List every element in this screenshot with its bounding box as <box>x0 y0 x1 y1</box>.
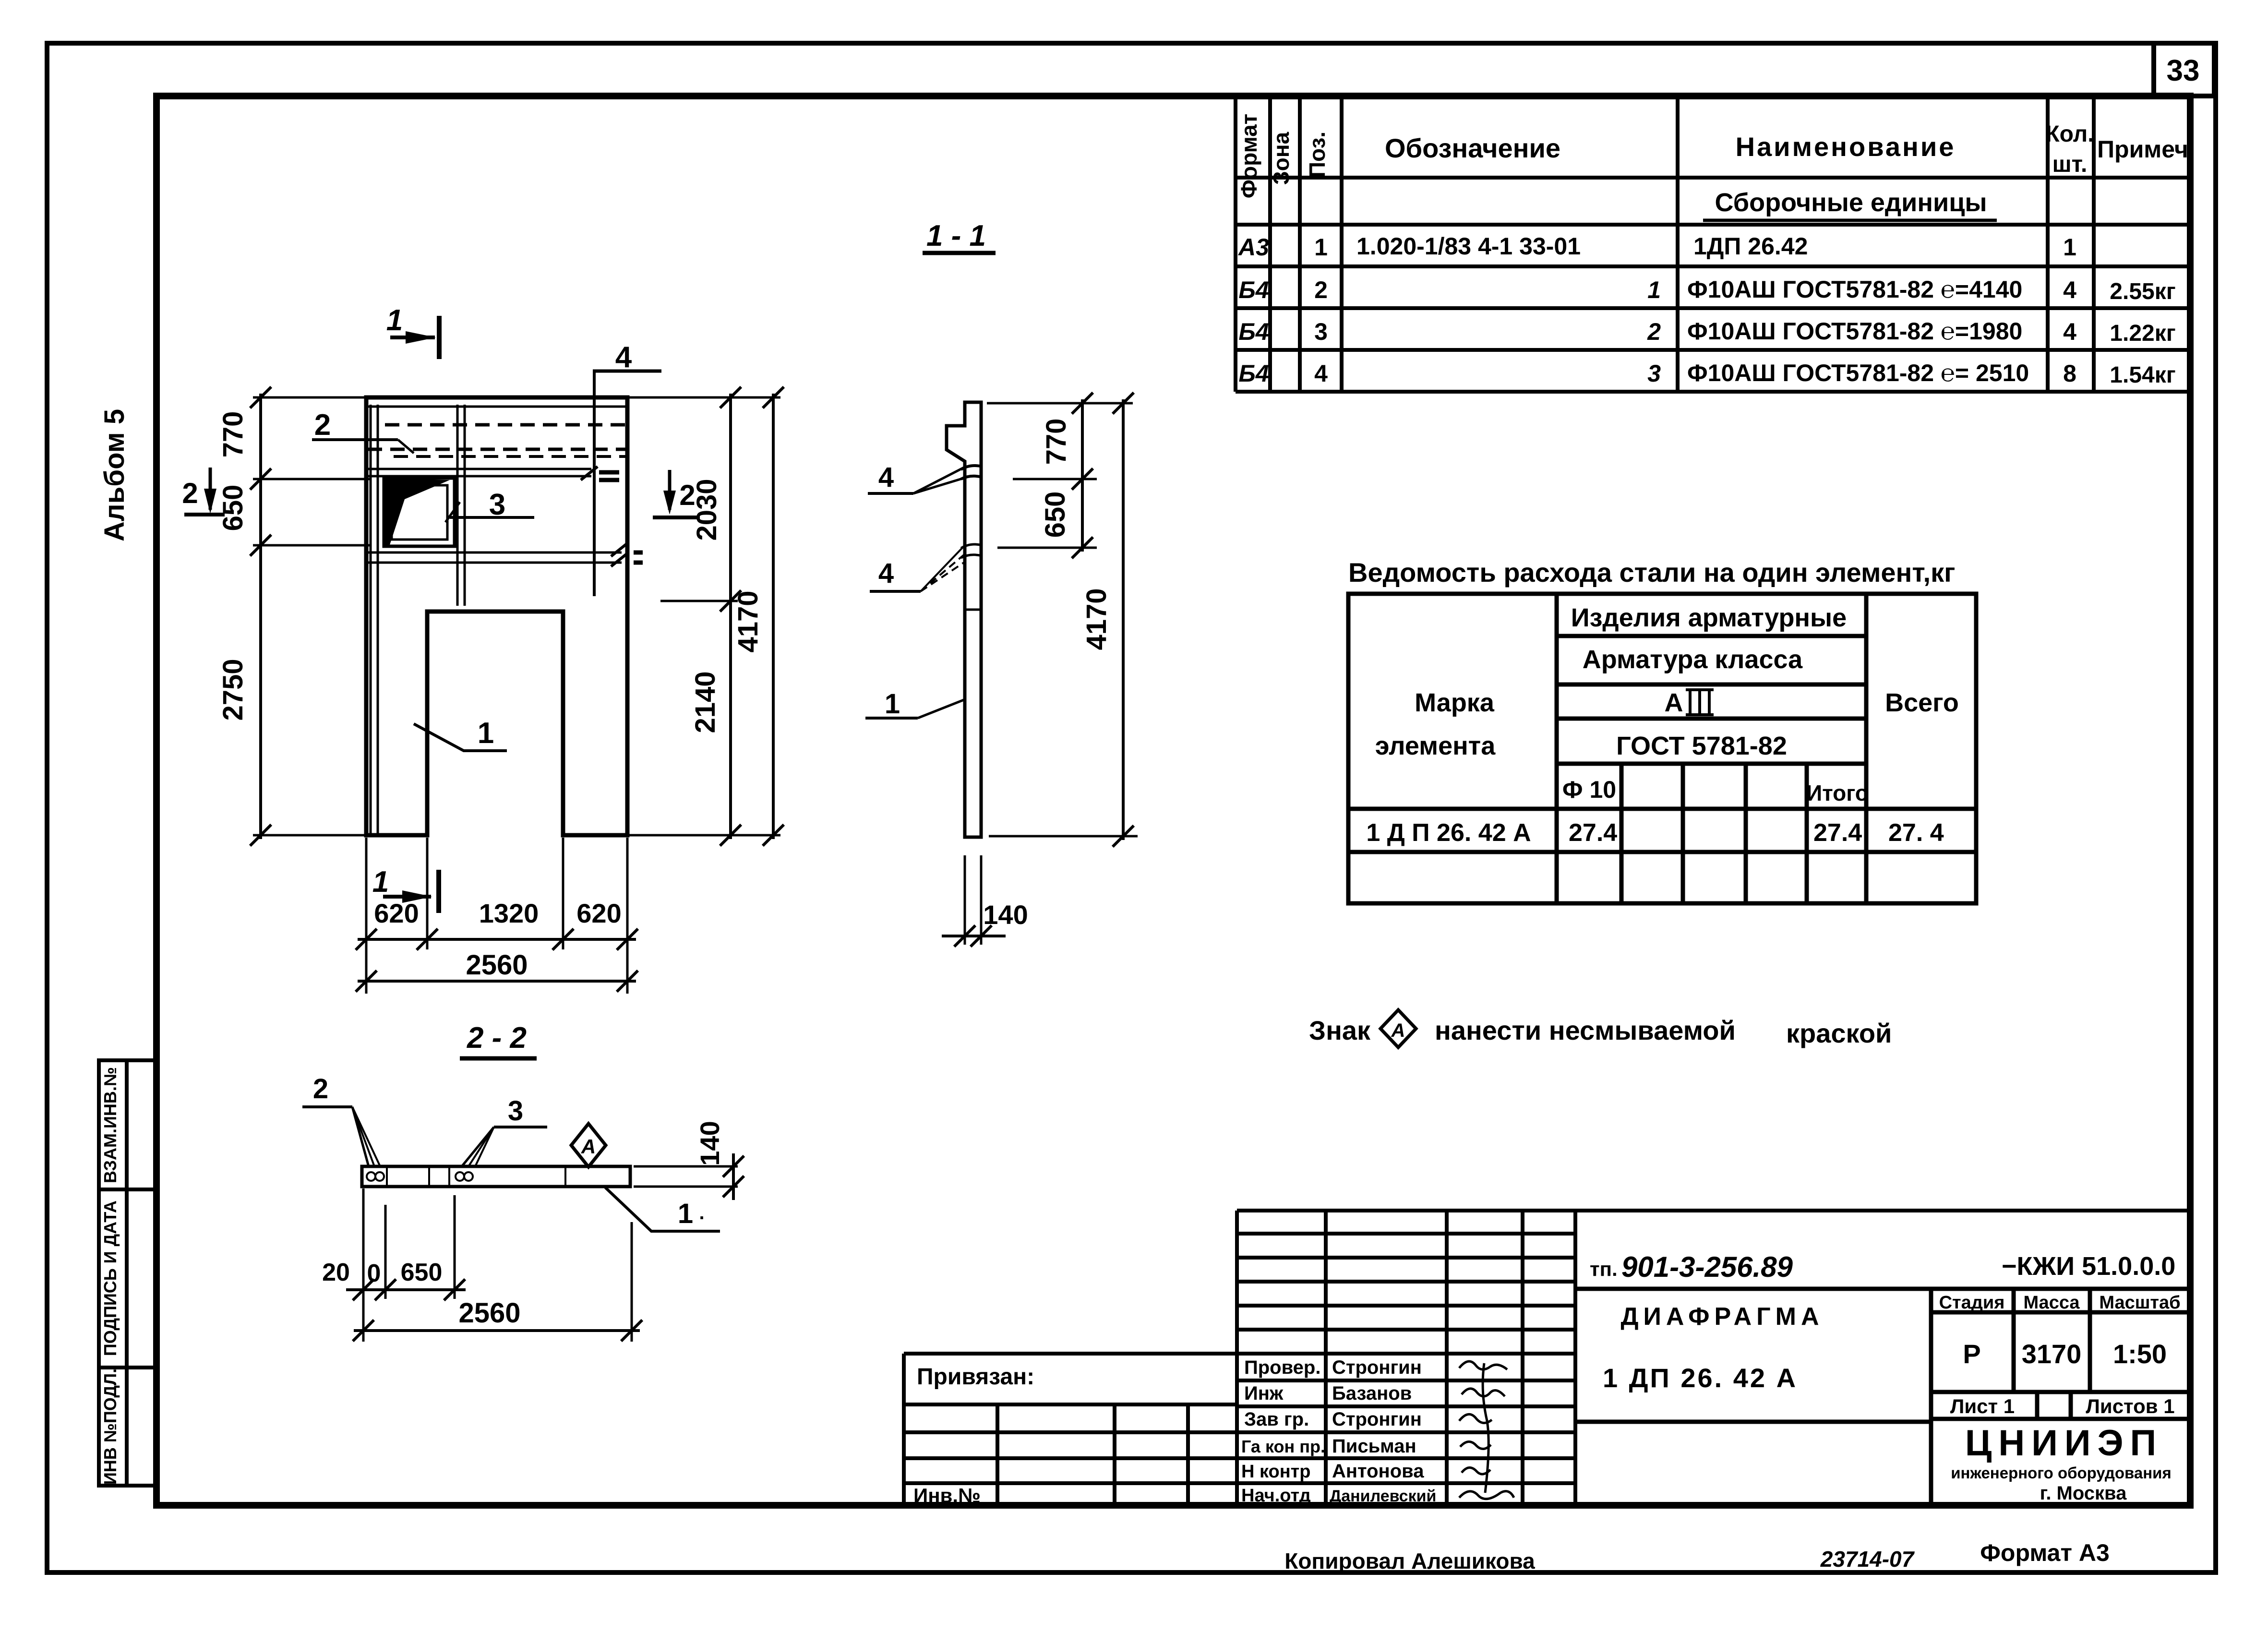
svg-text:20: 20 <box>322 1259 350 1286</box>
svg-text:8: 8 <box>2063 360 2076 387</box>
svg-text:Поз.: Поз. <box>1305 132 1330 178</box>
svg-text:А: А <box>581 1135 596 1158</box>
svg-text:27.4: 27.4 <box>1813 819 1862 847</box>
svg-text:650: 650 <box>217 485 249 531</box>
svg-text:1.020-1/83 4-1 33-01: 1.020-1/83 4-1 33-01 <box>1356 233 1581 260</box>
label 4 upper <box>868 462 964 493</box>
signature rows texts <box>1241 1357 1436 1506</box>
black corner flag <box>385 479 450 545</box>
svg-text:4: 4 <box>878 462 894 493</box>
svg-text:1 - 1: 1 - 1 <box>926 219 986 252</box>
svg-text:Копировал Алешикова: Копировал Алешикова <box>1284 1548 1535 1573</box>
SIDE VIEW section 1-1 title <box>923 219 996 253</box>
svg-text:1.54кг: 1.54кг <box>2110 362 2175 388</box>
bottom dimension line 2 <box>358 980 636 983</box>
svg-text:4170: 4170 <box>732 590 764 652</box>
label 3 with anchor fan (2-2) <box>456 1095 547 1181</box>
svg-text:Письман: Письман <box>1332 1436 1416 1457</box>
note: Знак А нанести несмываемой краской <box>1309 1010 1892 1048</box>
svg-text:Формат А3: Формат А3 <box>1980 1539 2110 1566</box>
dim 140 (2-2) <box>634 1166 738 1187</box>
panel inner top edge line <box>366 406 627 408</box>
svg-text:краской: краской <box>1786 1018 1892 1048</box>
section 2-2 slab bar <box>362 1166 630 1187</box>
label 1 side view <box>865 688 964 720</box>
SECTION 2-2 title <box>460 1021 537 1058</box>
svg-text:650: 650 <box>1040 492 1071 538</box>
svg-text:3170: 3170 <box>2022 1339 2082 1369</box>
sidebar stamp boxes <box>99 1060 156 1486</box>
svg-text:ПОДПИСЬ И ДАТА: ПОДПИСЬ И ДАТА <box>100 1200 120 1356</box>
svg-text:А: А <box>1391 1020 1405 1041</box>
svg-text:Инж: Инж <box>1244 1383 1284 1404</box>
svg-text:Б4: Б4 <box>1238 276 1269 303</box>
svg-text:Данилевский: Данилевский <box>1330 1487 1436 1505</box>
svg-text:Формат: Формат <box>1236 114 1261 198</box>
title block left part: Привязан <box>904 1354 1237 1505</box>
svg-text:−КЖИ 51.0.0.0: −КЖИ 51.0.0.0 <box>2002 1252 2175 1281</box>
svg-text:2030: 2030 <box>691 479 722 540</box>
svg-text:Инв.№: Инв.№ <box>913 1484 981 1507</box>
label 1 (2-2) <box>605 1188 720 1231</box>
svg-text:2: 2 <box>1314 276 1328 303</box>
label 4 lower <box>870 546 964 591</box>
svg-text:27.4: 27.4 <box>1569 819 1617 847</box>
svg-text:А3: А3 <box>1237 234 1269 261</box>
svg-text:2: 2 <box>314 408 331 442</box>
svg-text:Привязан:: Привязан: <box>917 1364 1034 1390</box>
svg-text:1: 1 <box>2063 234 2076 261</box>
dashed hidden line 3 <box>394 455 625 458</box>
label 2 with anchor fan (2-2) <box>302 1073 384 1181</box>
specification table grid <box>1236 97 2190 392</box>
svg-text:140: 140 <box>983 900 1028 930</box>
svg-text:620: 620 <box>374 898 419 928</box>
svg-text:1ДП 26.42: 1ДП 26.42 <box>1693 233 1808 260</box>
svg-text:1.22кг: 1.22кг <box>2110 321 2175 346</box>
svg-text:33: 33 <box>2167 54 2200 87</box>
svg-text:650: 650 <box>401 1259 443 1286</box>
svg-text:23714-07: 23714-07 <box>1820 1547 1915 1572</box>
svg-text:1: 1 <box>678 1198 693 1229</box>
svg-text:Ф10АШ ГОСТ5781-82 ℮=4140: Ф10АШ ГОСТ5781-82 ℮=4140 <box>1687 276 2022 303</box>
svg-text:4: 4 <box>615 341 632 374</box>
svg-text:Б4: Б4 <box>1238 318 1269 345</box>
opening corner window: inner rect <box>392 485 447 540</box>
dim line 2560 (2-2) <box>354 1329 640 1332</box>
svg-text:1 ДП 26. 42 А: 1 ДП 26. 42 А <box>1603 1363 1798 1393</box>
svg-text:2560: 2560 <box>458 1297 520 1329</box>
section callout 4 underline and cut line <box>593 370 661 373</box>
svg-text:Ф 10: Ф 10 <box>1562 776 1616 803</box>
svg-text:Р: Р <box>1963 1339 1980 1369</box>
svg-text:3: 3 <box>1314 318 1328 345</box>
svg-text:ВЗАМ.ИНВ.№: ВЗАМ.ИНВ.№ <box>100 1067 120 1183</box>
svg-text:инженерного оборудования: инженерного оборудования <box>1951 1464 2171 1482</box>
steel table grid <box>1348 594 1976 903</box>
svg-text:г. Москва: г. Москва <box>2040 1483 2127 1504</box>
svg-text:1320: 1320 <box>479 898 539 928</box>
svg-text:1: 1 <box>1314 234 1328 261</box>
left dimension line <box>259 394 262 839</box>
svg-text:.: . <box>699 1202 704 1224</box>
svg-text:Лист 1: Лист 1 <box>1950 1395 2015 1417</box>
side view anchor marks top <box>961 466 982 479</box>
svg-text:ДИАФРАГМА: ДИАФРАГМА <box>1620 1303 1824 1331</box>
title block right section <box>1575 1289 2190 1505</box>
svg-text:Марка: Марка <box>1415 688 1495 717</box>
svg-text:1: 1 <box>1647 276 1661 303</box>
svg-text:Стадия: Стадия <box>1939 1293 2005 1313</box>
opening corner window: outer rect <box>384 478 455 546</box>
side bottom dim 140 <box>965 855 981 945</box>
FRONT VIEW: panel outline with door opening <box>366 397 627 835</box>
svg-text:Изделия арматурные: Изделия арматурные <box>1571 603 1847 632</box>
side view anchor marks lower <box>961 544 982 558</box>
slab joints <box>387 1166 565 1187</box>
svg-text:Знак: Знак <box>1309 1015 1371 1045</box>
bottom extension lines <box>366 838 627 994</box>
signature squiggles <box>1459 1361 1514 1499</box>
side dim line 770/650 <box>1081 399 1084 552</box>
vertical rebar pair mid <box>456 405 459 606</box>
section marker 2 left <box>182 468 225 515</box>
TITLE BLOCK: revision grid <box>1237 1211 2190 1505</box>
svg-text:770: 770 <box>217 411 249 458</box>
bottom dimension line 1 <box>358 938 636 941</box>
svg-text:шт.: шт. <box>2052 152 2088 177</box>
svg-text:1: 1 <box>885 688 900 720</box>
svg-text:Н контр: Н контр <box>1241 1462 1311 1482</box>
svg-text:тп.: тп. <box>1590 1258 1618 1280</box>
right inner dimension line <box>729 394 732 839</box>
inner drawing frame <box>156 96 2190 1505</box>
section marker 1 top <box>386 304 439 359</box>
svg-text:Зона: Зона <box>1269 132 1294 185</box>
svg-text:Провер.: Провер. <box>1244 1357 1320 1378</box>
left dims (2-2) extension lines <box>363 1188 632 1342</box>
svg-text:Сборочные единицы: Сборочные единицы <box>1715 188 1987 217</box>
quality mark diamond A <box>571 1124 606 1167</box>
svg-text:ГОСТ 5781-82: ГОСТ 5781-82 <box>1616 732 1787 760</box>
svg-text:Ведомость расхода стали на од: Ведомость расхода стали на один элемент,… <box>1348 557 1955 588</box>
svg-text:140: 140 <box>695 1121 725 1165</box>
svg-text:ИНВ №ПОДЛ.: ИНВ №ПОДЛ. <box>100 1368 120 1485</box>
svg-text:Ф10АШ ГОСТ5781-82 ℮=1980: Ф10АШ ГОСТ5781-82 ℮=1980 <box>1687 318 2022 345</box>
svg-text:1 Д П 26. 42 А: 1 Д П 26. 42 А <box>1366 819 1531 847</box>
svg-text:4: 4 <box>2063 276 2076 303</box>
svg-text:Примеч: Примеч <box>2097 136 2188 163</box>
svg-text:27. 4: 27. 4 <box>1888 819 1944 847</box>
svg-text:Ф10АШ ГОСТ5781-82 ℮= 2510: Ф10АШ ГОСТ5781-82 ℮= 2510 <box>1687 360 2029 386</box>
svg-text:А: А <box>1665 688 1683 717</box>
right extension lines <box>629 397 780 835</box>
svg-text:2560: 2560 <box>466 949 528 981</box>
svg-text:2: 2 <box>313 1073 328 1104</box>
dashed hidden line 2 <box>368 448 625 451</box>
lintel top rebar pair <box>368 468 591 470</box>
svg-text:3: 3 <box>1647 360 1661 387</box>
svg-text:Нач.отд: Нач.отд <box>1241 1486 1311 1506</box>
vertical rebar pair left <box>370 405 372 833</box>
svg-text:2750: 2750 <box>217 659 249 720</box>
svg-text:4170: 4170 <box>1081 588 1112 650</box>
svg-text:Листов 1: Листов 1 <box>2086 1395 2174 1417</box>
svg-text:Масштаб: Масштаб <box>2099 1293 2180 1313</box>
svg-text:ЦНИИЭП: ЦНИИЭП <box>1965 1423 2163 1464</box>
side view joint line <box>965 609 981 611</box>
lintel bottom rebar pair <box>368 552 622 554</box>
svg-text:3: 3 <box>508 1095 523 1127</box>
svg-text:1: 1 <box>372 865 389 899</box>
left dim ticks <box>250 387 271 846</box>
side view right extension lines <box>987 403 1138 836</box>
dashed hidden line 1 <box>385 423 625 427</box>
section marker 2 right <box>653 470 700 517</box>
svg-text:1: 1 <box>478 717 494 750</box>
svg-text:2 - 2: 2 - 2 <box>467 1021 527 1055</box>
left dimension extension lines <box>253 397 370 835</box>
svg-text:4: 4 <box>1314 360 1328 387</box>
svg-text:Наименование: Наименование <box>1736 132 1956 162</box>
svg-text:Альбом 5: Альбом 5 <box>99 409 130 541</box>
side view bar profile <box>947 402 981 837</box>
dim line 200/650 <box>346 1288 466 1291</box>
svg-text:Га кон пр.: Га кон пр. <box>1241 1437 1325 1456</box>
svg-text:Б4: Б4 <box>1238 360 1269 387</box>
svg-text:620: 620 <box>576 898 621 928</box>
svg-text:Базанов: Базанов <box>1332 1383 1412 1404</box>
svg-text:901-3-256.89: 901-3-256.89 <box>1621 1251 1793 1283</box>
svg-text:Зав гр.: Зав гр. <box>1244 1409 1309 1430</box>
A III symbol <box>1665 688 1714 717</box>
svg-text:Кол.: Кол. <box>2045 121 2094 147</box>
right outer dimension line <box>772 394 775 839</box>
svg-text:Антонова: Антонова <box>1332 1461 1424 1482</box>
svg-text:0: 0 <box>367 1260 381 1287</box>
svg-text:Обозначение: Обозначение <box>1385 133 1560 163</box>
svg-text:2.55кг: 2.55кг <box>2110 279 2175 304</box>
svg-text:4: 4 <box>878 558 894 589</box>
svg-text:1: 1 <box>386 304 403 337</box>
svg-text:Стронгин: Стронгин <box>1332 1357 1422 1378</box>
svg-text:770: 770 <box>1041 419 1072 465</box>
svg-text:Арматура класса: Арматура класса <box>1583 645 1803 674</box>
svg-text:Масса: Масса <box>2023 1293 2080 1313</box>
side dim line 4170 <box>1122 399 1125 840</box>
svg-text:нанести несмываемой: нанести несмываемой <box>1435 1015 1736 1045</box>
svg-text:1:50: 1:50 <box>2113 1339 2167 1369</box>
svg-text:4: 4 <box>2063 318 2076 345</box>
section marker 1 bottom <box>372 865 439 913</box>
page number box 33 <box>2154 43 2214 96</box>
svg-text:2140: 2140 <box>690 671 721 733</box>
svg-text:элемента: элемента <box>1375 732 1496 760</box>
svg-text:2: 2 <box>182 477 198 509</box>
svg-text:2: 2 <box>1647 318 1661 345</box>
svg-text:Итого: Итого <box>1806 780 1869 805</box>
svg-text:Стронгин: Стронгин <box>1332 1409 1422 1430</box>
svg-text:Всего: Всего <box>1885 688 1959 717</box>
